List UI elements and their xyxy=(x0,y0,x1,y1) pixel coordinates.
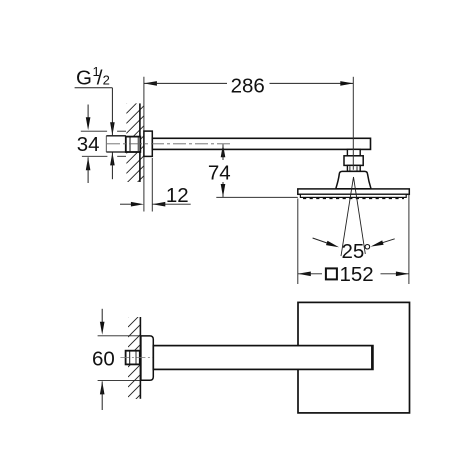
wall hatching (side view) xyxy=(126,86,144,194)
dimension text 34 xyxy=(77,133,100,156)
centerline (top view) xyxy=(120,357,153,359)
dimension 152 extension lines xyxy=(298,195,409,285)
spray face lip xyxy=(300,194,406,197)
head dome cone xyxy=(336,171,371,188)
svg-text:74: 74 xyxy=(208,161,231,184)
dimension 74 line with arrows xyxy=(221,144,226,197)
spray nozzles row xyxy=(303,197,404,199)
svg-text:60: 60 xyxy=(92,348,115,371)
head centerline / 286 extension line xyxy=(352,77,354,170)
hex nut (side view) xyxy=(126,137,141,152)
G 1/2 thread label xyxy=(75,64,113,90)
flange escutcheon (top view) xyxy=(141,336,153,380)
svg-text:°: ° xyxy=(363,240,371,263)
dimension text 60 xyxy=(92,348,115,371)
square symbol for 152 xyxy=(326,268,337,279)
dimension text 74 xyxy=(208,161,231,184)
svg-text:12: 12 xyxy=(166,184,189,207)
svg-text:152: 152 xyxy=(340,263,374,286)
head plate (side view) xyxy=(298,189,410,194)
swivel angle left arrow xyxy=(313,238,339,247)
wall line (side view) xyxy=(139,103,141,182)
wall line (top view) xyxy=(139,317,141,399)
swivel angle lines xyxy=(341,177,365,256)
svg-text:34: 34 xyxy=(77,133,100,156)
wall face extension line (side view) xyxy=(143,77,145,212)
dimension text 152 xyxy=(340,263,374,286)
dimension text 25 degrees xyxy=(342,240,372,263)
svg-text:G: G xyxy=(76,67,92,90)
dimension 60 extension lines xyxy=(98,336,141,381)
svg-text:286: 286 xyxy=(231,74,265,97)
ball joint neck lower xyxy=(347,165,360,171)
swivel nut block xyxy=(344,156,363,166)
supply pipe stub xyxy=(106,136,126,152)
spray face reference line xyxy=(216,196,297,198)
dimension 152 line with arrows xyxy=(298,272,409,277)
flange escutcheon (side view) xyxy=(144,131,152,156)
head square plate (top view) xyxy=(298,302,410,413)
dimension 34 arrows xyxy=(86,105,91,184)
shower arm (side view) xyxy=(152,138,370,149)
swivel angle right arrow xyxy=(371,239,395,247)
svg-text:25: 25 xyxy=(342,240,365,263)
hex nut (top view) xyxy=(126,351,140,365)
dimension 12 extension line xyxy=(151,158,153,212)
dimension 34 extension lines xyxy=(81,131,126,156)
wall hatching (top view) xyxy=(128,305,140,407)
G 1/2 leader line with arrows xyxy=(110,88,115,179)
dimension text 12 xyxy=(166,184,189,207)
dimension 286 line with arrows xyxy=(144,81,353,86)
shower arm (top view) xyxy=(153,346,373,370)
arm centerline (dash-dot) xyxy=(107,143,231,145)
arm-to-head neck upper xyxy=(347,149,360,155)
dimension 60 arrows xyxy=(100,309,105,410)
svg-text:2: 2 xyxy=(103,73,110,88)
dimension text 286 xyxy=(231,74,265,97)
dimension 12 line with arrows xyxy=(120,202,191,207)
